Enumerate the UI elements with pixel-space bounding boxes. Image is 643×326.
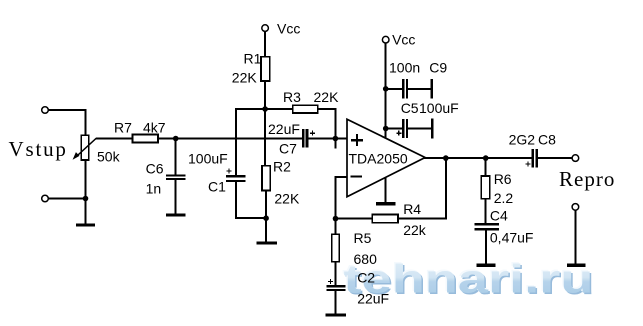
svg-text:Vcc: Vcc <box>392 32 415 48</box>
svg-text:C9: C9 <box>429 60 447 76</box>
svg-text:R3: R3 <box>283 89 301 105</box>
svg-text:R7: R7 <box>114 120 132 136</box>
svg-text:22uF: 22uF <box>268 121 300 137</box>
svg-text:C7: C7 <box>279 140 297 156</box>
svg-text:Repro: Repro <box>559 167 615 191</box>
svg-text:100n: 100n <box>389 60 420 76</box>
svg-text:C5: C5 <box>401 100 419 116</box>
svg-text:2.2: 2.2 <box>494 190 514 206</box>
svg-text:C6: C6 <box>146 161 164 177</box>
svg-text:R5: R5 <box>354 230 372 246</box>
svg-text:Vstup: Vstup <box>9 137 68 161</box>
svg-text:R4: R4 <box>403 201 421 217</box>
svg-text:C1: C1 <box>208 179 226 195</box>
svg-text:C2: C2 <box>357 270 375 286</box>
svg-text:Vcc: Vcc <box>277 21 300 37</box>
svg-text:100uF: 100uF <box>188 150 228 166</box>
svg-text:22K: 22K <box>314 89 340 105</box>
svg-text:100uF: 100uF <box>419 100 459 116</box>
svg-text:R6: R6 <box>494 171 512 187</box>
svg-text:1n: 1n <box>146 181 162 197</box>
svg-text:2G2: 2G2 <box>509 132 536 148</box>
svg-text:4k7: 4k7 <box>143 120 166 136</box>
svg-text:50k: 50k <box>97 149 121 165</box>
svg-text:0,47uF: 0,47uF <box>490 230 534 246</box>
svg-text:22uF: 22uF <box>357 290 389 306</box>
svg-text:TDA2050: TDA2050 <box>349 150 408 166</box>
svg-text:22k: 22k <box>403 222 427 238</box>
svg-text:680: 680 <box>354 251 378 267</box>
svg-text:R2: R2 <box>273 159 291 175</box>
svg-text:C8: C8 <box>538 132 556 148</box>
svg-text:22K: 22K <box>274 190 300 206</box>
svg-text:22K: 22K <box>232 70 258 86</box>
svg-text:R1: R1 <box>244 51 262 67</box>
svg-text:C4: C4 <box>490 207 508 223</box>
